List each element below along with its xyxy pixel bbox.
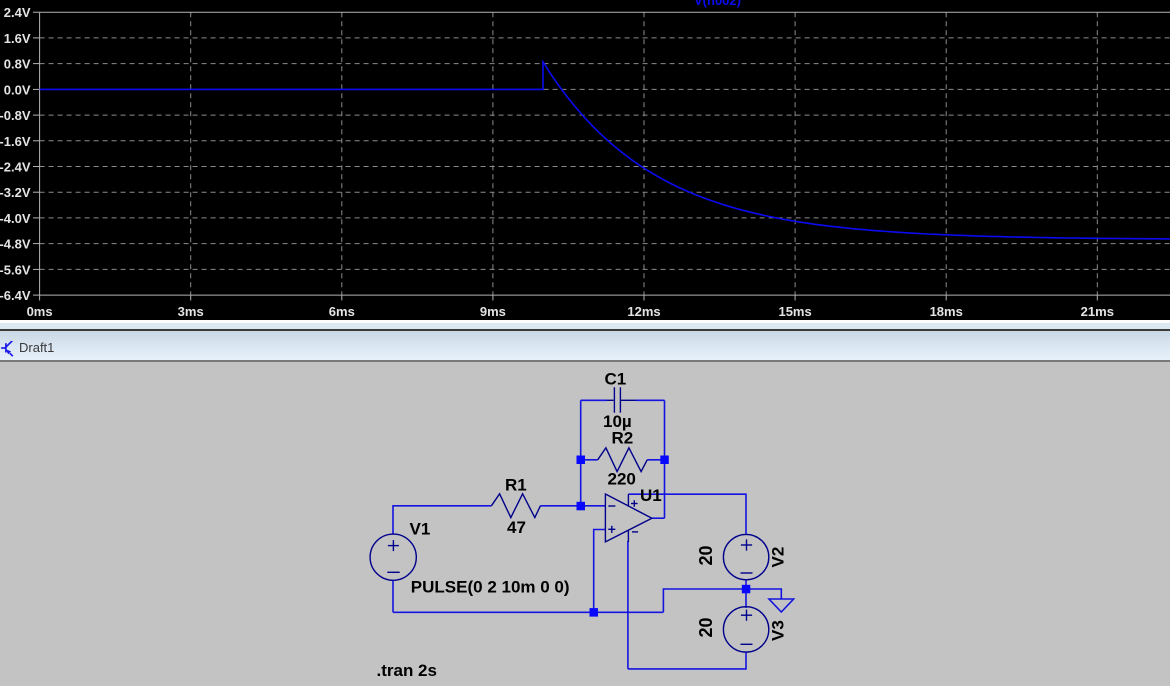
symbols in navy — [370, 387, 769, 652]
wire ground branch — [746, 589, 781, 599]
svg-text:2.4V: 2.4V — [4, 5, 31, 20]
svg-text:-2.4V: -2.4V — [0, 160, 31, 175]
wire op-amp noninverting input branch — [594, 530, 606, 613]
svg-text:V2: V2 — [769, 547, 788, 568]
divider: dark line — [0, 329, 1170, 331]
svg-text:R2: R2 — [612, 429, 634, 448]
wire R2 left lead — [581, 459, 598, 461]
wire junction to V3 top — [745, 589, 747, 608]
node V2/V3 junction — [742, 585, 751, 594]
wire V1 bottom — [392, 580, 394, 612]
wire op-amp output — [652, 517, 665, 519]
svg-text:6ms: 6ms — [329, 304, 355, 319]
svg-text:V1: V1 — [410, 520, 431, 539]
svg-text:9ms: 9ms — [480, 304, 506, 319]
trace V(n002) — [40, 62, 1170, 239]
wire junction to bottom rail riser — [663, 589, 746, 612]
svg-text:0.8V: 0.8V — [4, 57, 31, 72]
svg-text:220: 220 — [608, 469, 636, 488]
svg-text:-4.8V: -4.8V — [0, 237, 31, 252]
svg-text:12ms: 12ms — [627, 304, 660, 319]
svg-text:47: 47 — [507, 518, 526, 537]
wires — [393, 400, 781, 669]
svg-text:20: 20 — [696, 617, 716, 637]
svg-text:-5.6V: -5.6V — [0, 262, 31, 277]
svg-text:U1: U1 — [640, 486, 662, 505]
capacitor C1 — [607, 387, 636, 412]
waveform pane — [0, 0, 1170, 320]
svg-text:-0.8V: -0.8V — [0, 108, 31, 123]
resistor R2 — [598, 448, 648, 472]
svg-text:V(n002): V(n002) — [694, 0, 741, 8]
junction nodes — [577, 456, 751, 617]
svg-text:.tran 2s: .tran 2s — [377, 661, 437, 680]
title bar bottom border — [0, 360, 1170, 362]
wire op-amp V- vertical — [627, 541, 629, 669]
svg-text:R1: R1 — [505, 476, 527, 495]
wire V2 bottom to junction — [745, 580, 747, 589]
wire R1 to op-amp inverting input — [540, 505, 605, 507]
svg-text:18ms: 18ms — [930, 304, 963, 319]
dashed grid horizontals — [40, 38, 1170, 270]
wire top branch right of C1 — [636, 399, 665, 401]
plot border — [40, 12, 1170, 295]
svg-text:-6.4V: -6.4V — [0, 288, 31, 303]
voltage source V3 — [723, 607, 768, 652]
svg-text:-3.2V: -3.2V — [0, 185, 31, 200]
dashed grid verticals — [191, 12, 1098, 295]
ground — [769, 599, 794, 612]
svg-text:0.0V: 0.0V — [4, 82, 31, 97]
svg-text:3ms: 3ms — [178, 304, 204, 319]
node R2 right — [660, 456, 669, 465]
wire left feedback vertical — [580, 400, 582, 506]
op-amp U1 — [605, 494, 652, 542]
svg-text:-4.0V: -4.0V — [0, 211, 31, 226]
voltage source V2 — [723, 534, 768, 579]
labels — [377, 369, 788, 680]
svg-text:20: 20 — [696, 545, 716, 565]
svg-text:-1.6V: -1.6V — [0, 134, 31, 149]
axis ticks — [33, 12, 1097, 300]
divider: white line — [0, 320, 1170, 323]
wire V+ rail to V2 — [628, 494, 746, 534]
svg-text:0ms: 0ms — [27, 304, 53, 319]
wire V3 bottom to op-amp V- — [628, 652, 746, 669]
wire bottom rail — [393, 611, 663, 613]
schematic pane — [0, 362, 1170, 686]
wire V1 top to R1 — [393, 506, 491, 534]
svg-text:C1: C1 — [605, 369, 627, 388]
title bar Draft1 — [0, 331, 1170, 361]
svg-text:V3: V3 — [769, 620, 788, 641]
wire right feedback vertical — [664, 400, 666, 518]
wire R2 right lead — [647, 459, 664, 461]
node R2 left — [577, 456, 586, 465]
wire top branch left of C1 — [581, 399, 607, 401]
voltage source V1 — [370, 534, 416, 580]
node R1/op-amp in — [577, 502, 586, 511]
svg-text:15ms: 15ms — [778, 304, 811, 319]
Draft1 icon — [1, 341, 17, 361]
node bottom rail — [590, 608, 599, 617]
divider: pale blue strip — [0, 323, 1170, 329]
resistor R1 — [491, 494, 540, 518]
svg-text:21ms: 21ms — [1081, 304, 1114, 319]
svg-text:PULSE(0 2 10m 0 0): PULSE(0 2 10m 0 0) — [411, 578, 570, 597]
svg-text:1.6V: 1.6V — [4, 31, 31, 46]
